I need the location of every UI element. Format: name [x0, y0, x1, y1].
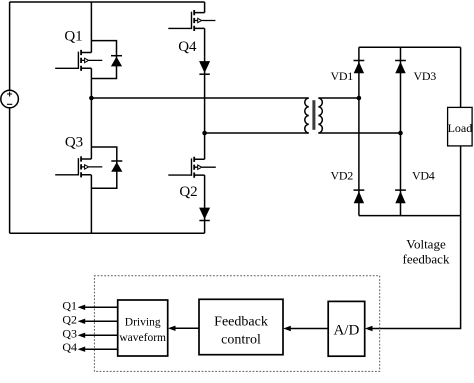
svg-text:VD2: VD2 — [331, 168, 354, 182]
svg-text:Q3: Q3 — [62, 326, 77, 340]
svg-text:feedback: feedback — [403, 252, 450, 267]
svg-text:control: control — [221, 333, 261, 348]
svg-text:Q1: Q1 — [62, 298, 77, 312]
svg-text:A/D: A/D — [333, 323, 359, 339]
svg-text:Feedback: Feedback — [214, 315, 268, 330]
svg-text:Q4: Q4 — [62, 340, 77, 354]
svg-text:waveform: waveform — [119, 332, 166, 344]
svg-text:Q1: Q1 — [64, 29, 82, 45]
svg-text:Load: Load — [448, 121, 473, 135]
svg-text:VD4: VD4 — [412, 168, 435, 182]
svg-text:Q2: Q2 — [179, 184, 197, 200]
svg-text:Q2: Q2 — [62, 312, 77, 326]
svg-text:Q3: Q3 — [65, 135, 83, 151]
svg-text:Q4: Q4 — [178, 39, 197, 55]
svg-text:VD3: VD3 — [414, 69, 437, 83]
svg-text:VD1: VD1 — [331, 69, 354, 83]
svg-text:Voltage: Voltage — [406, 237, 446, 252]
svg-text:Driving: Driving — [125, 317, 161, 329]
